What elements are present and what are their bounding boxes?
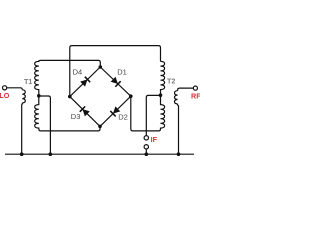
node ground T1 center tap	[49, 152, 53, 156]
wire diamond edge bottom-right	[100, 96, 131, 126]
diode D1	[111, 77, 121, 87]
wire IF bottom terminal to ground rail	[145, 149, 147, 154]
wire RF to T2 primary	[178, 88, 194, 91]
wire diamond edge bottom-left	[70, 97, 100, 127]
node diamond left	[68, 95, 72, 99]
wire diamond edge top-left	[70, 67, 101, 97]
wire diamond left corner to top rail to T2 secondary top	[70, 46, 161, 97]
diode D2	[110, 106, 120, 116]
wire T2 center tap to IF terminal	[146, 95, 160, 135]
node diamond bottom	[98, 125, 102, 129]
svg-text:D2: D2	[118, 113, 128, 122]
node ground IF	[145, 152, 149, 156]
svg-text:LO: LO	[0, 91, 10, 100]
node T2 center tap	[159, 93, 163, 97]
svg-text:RF: RF	[191, 91, 200, 100]
svg-text:D1: D1	[117, 68, 127, 77]
svg-text:T2: T2	[167, 77, 175, 86]
diode D3	[80, 106, 90, 116]
node ground T2 primary	[177, 152, 181, 156]
transformer T2 secondary winding with bottom lead	[131, 61, 165, 130]
diode D4	[80, 77, 90, 87]
ground rail	[5, 153, 194, 155]
svg-text:D4: D4	[73, 68, 83, 77]
svg-text:D3: D3	[71, 112, 81, 121]
terminal IF top	[144, 136, 148, 140]
node diamond right	[129, 94, 133, 98]
transformer T1 primary winding	[22, 90, 25, 103]
node diamond top	[99, 65, 103, 69]
terminal RF	[193, 86, 197, 90]
svg-text:T1: T1	[24, 77, 32, 86]
terminal IF bottom	[144, 145, 148, 149]
wire diamond edge top-right	[100, 67, 131, 96]
svg-text:IF: IF	[151, 135, 158, 144]
terminal LO	[3, 86, 7, 90]
wire T2 primary to ground rail	[178, 104, 179, 154]
wire T1 primary to ground rail	[21, 103, 24, 154]
transformer T2 primary winding	[175, 91, 178, 104]
wire T1 center tap to ground	[39, 96, 51, 154]
node ground T1 primary	[20, 152, 24, 156]
wire LO to T1 primary	[7, 88, 22, 90]
transformer T1 secondary winding with top/bottom leads	[35, 60, 101, 130]
node T1 center tap	[37, 94, 41, 98]
